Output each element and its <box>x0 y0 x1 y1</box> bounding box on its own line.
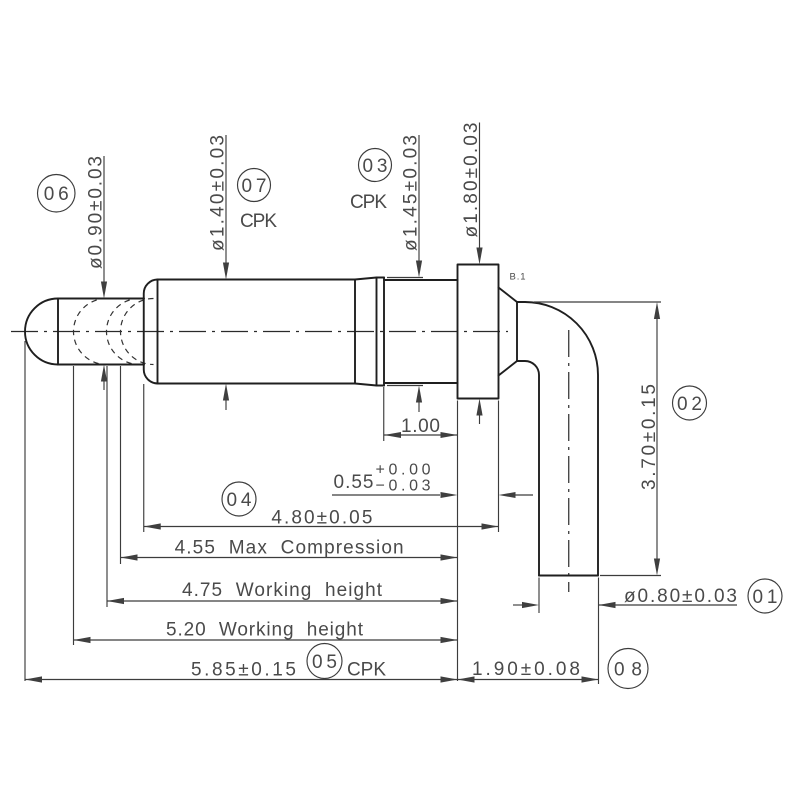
svg-text:4.75 Working height: 4.75 Working height <box>182 580 383 601</box>
svg-text:CPK: CPK <box>347 660 386 681</box>
svg-text:4.55 Max Compression: 4.55 Max Compression <box>175 538 404 559</box>
svg-text:0.55: 0.55 <box>334 472 374 493</box>
svg-text:1.90±0.08: 1.90±0.08 <box>472 659 580 680</box>
svg-text:CPK: CPK <box>350 192 387 213</box>
svg-text:5.85±0.15: 5.85±0.15 <box>191 660 296 681</box>
svg-text:5.20 Working height: 5.20 Working height <box>166 620 364 641</box>
svg-text:1.00: 1.00 <box>401 416 440 437</box>
svg-text:CPK: CPK <box>240 211 277 232</box>
svg-text:B.1: B.1 <box>510 272 526 283</box>
svg-text:4.80±0.05: 4.80±0.05 <box>271 507 372 528</box>
svg-text:3.70±0.15: 3.70±0.15 <box>639 384 660 490</box>
svg-text:−0.03: −0.03 <box>376 478 431 495</box>
svg-text:+0.00: +0.00 <box>376 462 431 479</box>
